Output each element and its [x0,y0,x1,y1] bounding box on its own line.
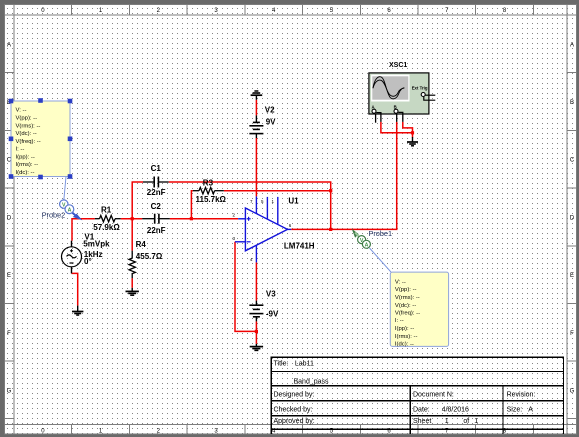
svg-text:I: --: I: -- [16,147,25,153]
svg-text:A: A [68,207,72,213]
ground below V1 [72,306,83,316]
svg-text:V(pp): --: V(pp): -- [16,116,38,122]
svg-text:1: 1 [474,418,478,425]
wire C1 left [132,181,144,183]
node junction output [329,228,332,231]
wire inverting input to V3 ground net [235,242,256,332]
svg-text:V: V [360,238,364,244]
svg-text:E: E [570,273,574,279]
svg-text:V(pp): --: V(pp): -- [395,287,417,293]
svg-text:9V: 9V [266,118,276,127]
svg-text:E: E [7,273,11,279]
svg-text:Probe1: Probe1 [369,229,393,238]
resistor R4 [129,251,135,279]
node junction R3/output [329,189,332,192]
op-amp U1 [235,196,291,262]
svg-text:I(rms): --: I(rms): -- [395,334,418,340]
source V1 [62,241,82,274]
ground scope net [407,137,418,146]
svg-text:Lab11: Lab11 [295,361,314,368]
probe annotation box 1 [11,101,70,177]
svg-text:XSC1: XSC1 [389,62,407,69]
probe annotation box 2 [390,272,448,348]
wire node vertical C1/R4 branch [131,182,133,251]
svg-text:Sheet: Sheet [413,418,431,425]
svg-text:D: D [7,215,12,221]
node junction scope ground [411,131,414,134]
wire C1 right to output node [169,181,332,183]
capacitor C1 [143,177,169,188]
svg-text:F: F [570,331,574,337]
svg-text:0°: 0° [84,257,92,266]
svg-text:V: --: V: -- [395,279,406,285]
svg-text:G: G [570,389,575,395]
title block text [274,361,536,425]
svg-text:V2: V2 [265,105,275,114]
svg-text:D: D [570,215,575,221]
svg-text:4/8/2016: 4/8/2016 [442,406,469,413]
svg-text:I(pp): --: I(pp): -- [395,326,414,332]
ground above V2 (flipped) [251,91,263,100]
oscilloscope XSC1 [369,73,435,123]
capacitor C2 [142,214,170,224]
callout line box1 to Probe2 [64,177,67,204]
svg-text:I(dc): --: I(dc): -- [395,342,414,348]
wire V2 to op-amp V+ pin [255,138,257,196]
svg-text:R3: R3 [203,179,214,188]
wire C2 right to op-amp noninverting input [170,218,238,220]
svg-text:5mVpk: 5mVpk [83,239,110,248]
component labels [83,105,279,318]
svg-text:Designed by:: Designed by: [274,392,315,399]
svg-text:115.7kΩ: 115.7kΩ [196,195,227,204]
svg-text:A: A [7,42,11,48]
wire R1 right to C2 left [121,218,143,220]
wire V1 top to R1 (input corner) [72,219,95,241]
battery V2 [249,115,263,138]
wire R4 bottom to ground [131,278,133,288]
wire R3 left corner [191,191,193,218]
wire op-amp V- pin to V3 [255,262,257,300]
svg-text:V(freq): --: V(freq): -- [16,139,41,145]
battery V3 [249,301,263,322]
svg-text:R4: R4 [136,240,147,249]
wire R3 right to output node [224,190,331,192]
svg-text:B: B [570,100,574,106]
svg-text:57.9kΩ: 57.9kΩ [93,223,120,232]
probe Probe2 [42,200,83,220]
wire scope A minus to ground net [381,122,413,133]
svg-text:V: --: V: -- [16,108,27,114]
svg-text:A: A [570,42,574,48]
svg-text:Revision:: Revision: [507,392,536,399]
svg-text:1: 1 [445,418,449,425]
ground below R4 [126,288,139,295]
svg-text:R1: R1 [101,205,112,214]
svg-text:Date:: Date: [413,406,430,413]
svg-text:Approved by:: Approved by: [274,418,315,425]
svg-text:Probe2: Probe2 [42,211,66,220]
wire output vertical node branch [330,182,332,229]
svg-text:V(freq): --: V(freq): -- [395,311,420,317]
svg-text:22nF: 22nF [147,226,166,235]
svg-text:I(dc): --: I(dc): -- [16,170,35,176]
svg-text:A: A [528,406,533,413]
svg-text:of: of [463,418,469,425]
node junction R3 tap [190,217,193,220]
svg-text:Size:: Size: [507,406,523,413]
resistor R3 [193,188,224,194]
svg-text:V: V [62,202,66,208]
svg-text:Checked by:: Checked by: [274,406,313,413]
title block [271,357,563,434]
svg-text:Document N:: Document N: [413,392,454,399]
svg-text:V3: V3 [266,289,276,298]
svg-text:V(rms): --: V(rms): -- [395,295,420,301]
svg-text:I(rms): --: I(rms): -- [16,162,39,168]
svg-text:C1: C1 [151,164,162,173]
svg-text:C: C [570,158,575,164]
wire V1 bottom to ground [72,273,78,305]
svg-text:G: G [7,389,12,395]
probe Probe1 [352,229,392,249]
resistor R1 [95,216,121,222]
svg-text:A: A [365,243,369,249]
svg-text:V(rms): --: V(rms): -- [16,123,41,129]
node junction V3/inverting input [255,330,258,333]
svg-text:455.7Ω: 455.7Ω [136,252,163,261]
svg-text:Ext Trig: Ext Trig [412,85,428,90]
wire scope B minus to ground net [403,122,413,138]
ground below V3 [250,344,263,351]
svg-text:U1: U1 [288,197,299,206]
svg-text:LM741H: LM741H [284,242,315,251]
svg-text:V(dc): --: V(dc): -- [16,131,37,137]
svg-text:F: F [7,331,11,337]
svg-text:I(pp): --: I(pp): -- [16,154,35,160]
node junction R1/C2/R4 [131,217,134,220]
svg-text:Band_pass: Band_pass [294,379,330,386]
svg-text:V(dc): --: V(dc): -- [395,303,416,309]
callout line Probe1 to box2 [370,248,392,272]
wire V3 bottom to ground [255,321,257,344]
svg-text:Title:: Title: [274,361,289,368]
svg-text:I: --: I: -- [395,318,404,324]
svg-text:-9V: -9V [266,310,279,319]
wire V2 ground to battery [255,100,257,116]
svg-text:22nF: 22nF [147,188,166,197]
op-amp pin numbers [233,199,292,262]
selection handles box1 [9,98,73,179]
wire op-amp output to scope B [291,122,397,229]
svg-text:C2: C2 [151,202,162,211]
